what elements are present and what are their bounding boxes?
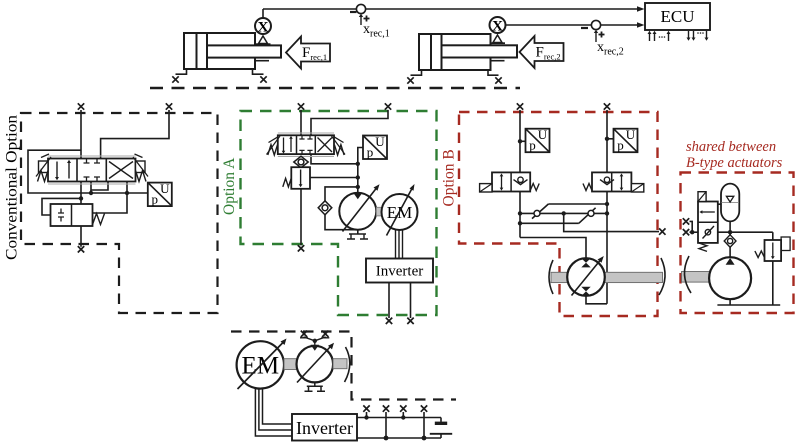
svg-text:Inverter: Inverter (296, 418, 353, 438)
svg-text:ECU: ECU (661, 7, 695, 26)
svg-text:Conventional Option: Conventional Option (4, 115, 21, 260)
svg-text:X: X (492, 19, 503, 35)
svg-text:Option B: Option B (441, 149, 458, 206)
svg-text:B-type actuators: B-type actuators (686, 155, 783, 171)
svg-text:shared between: shared between (686, 139, 776, 155)
svg-text:X: X (258, 20, 269, 36)
svg-text:Option A: Option A (221, 157, 238, 215)
svg-text:Inverter: Inverter (376, 264, 423, 280)
